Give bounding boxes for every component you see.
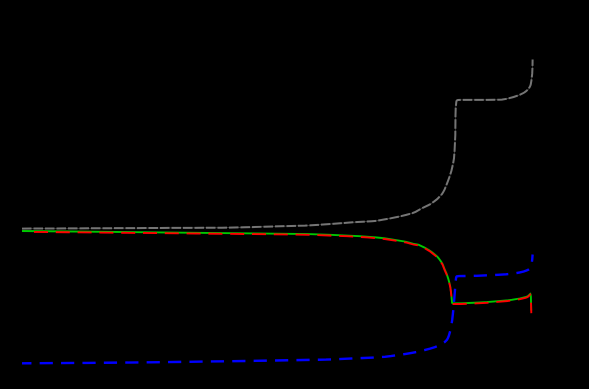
blue dashed curve bbox=[22, 255, 533, 364]
gray solid curve (underlay, model A) bbox=[22, 60, 533, 229]
gray dashed curve (model B) bbox=[22, 60, 533, 229]
red dashed curve (overlapping green) bbox=[34, 232, 531, 313]
green solid curve bbox=[22, 231, 531, 311]
